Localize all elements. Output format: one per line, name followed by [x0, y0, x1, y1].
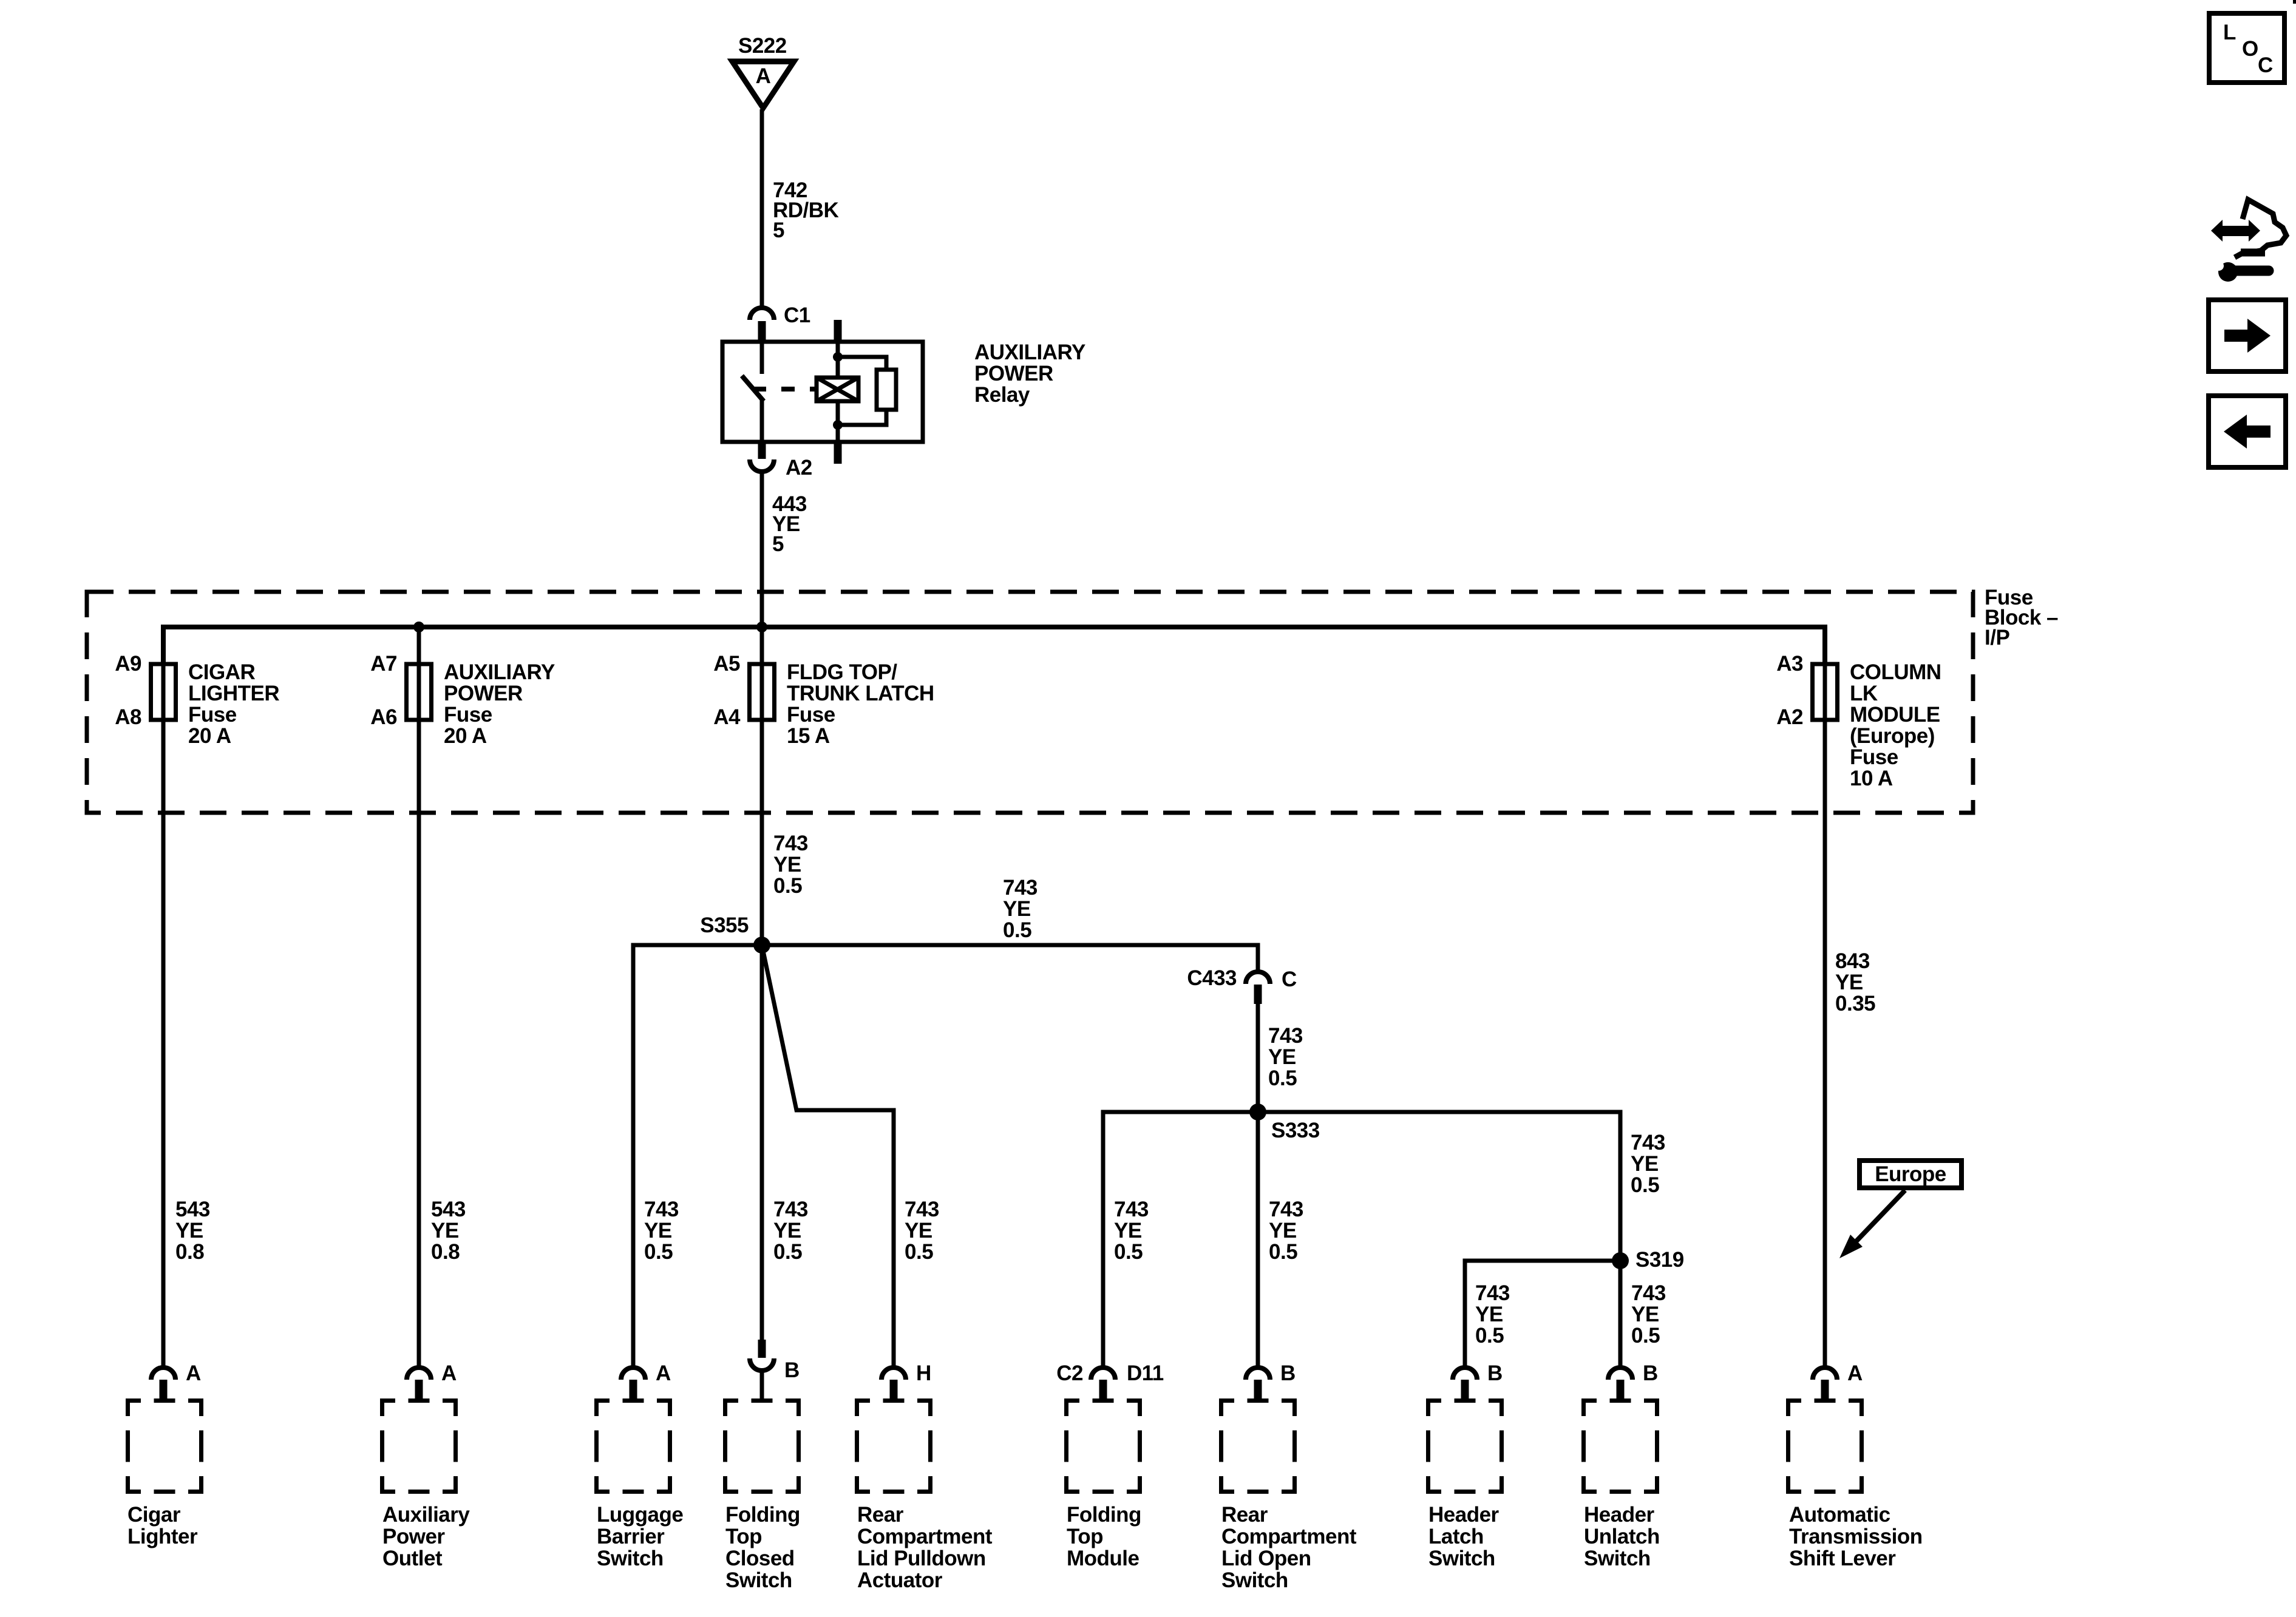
- wire label 743 YE 0.5: [1631, 1281, 1666, 1347]
- svg-text:0.5: 0.5: [644, 1240, 673, 1264]
- wire S333 to folding top module: [1103, 1112, 1258, 1367]
- svg-text:Switch: Switch: [1221, 1568, 1288, 1592]
- svg-text:Transmission: Transmission: [1789, 1525, 1923, 1548]
- connector C433 pin C: [1187, 966, 1297, 1004]
- connector A2: [750, 442, 812, 480]
- svg-text:Rear: Rear: [1221, 1503, 1268, 1527]
- wire label 743 YE 0.5: [1631, 1131, 1665, 1197]
- svg-text:O: O: [2242, 37, 2258, 61]
- svg-text:743: 743: [1631, 1131, 1665, 1154]
- svg-text:B: B: [1487, 1361, 1503, 1385]
- svg-text:POWER: POWER: [974, 362, 1053, 385]
- wire C433 to S333: [1256, 1004, 1260, 1112]
- Europe callout box: [1860, 1161, 1961, 1188]
- fuse block label Fuse Block - I/P: [1985, 586, 2058, 649]
- fuse AUXILIARY POWER Fuse 20 A: [407, 627, 432, 722]
- svg-text:Shift Lever: Shift Lever: [1789, 1547, 1896, 1570]
- wire label 743 YE 0.5 above S355: [773, 832, 808, 898]
- svg-text:0.8: 0.8: [175, 1240, 204, 1264]
- wire 843 fuse A2 to automatic transmission shift lever: [1823, 720, 1827, 1367]
- component label Automatic Transmission Shift Lever: [1789, 1503, 1923, 1570]
- svg-text:Rear: Rear: [857, 1503, 904, 1527]
- svg-text:(Europe): (Europe): [1850, 724, 1935, 748]
- svg-text:843: 843: [1835, 949, 1870, 973]
- connector A auxiliary power outlet: [407, 1361, 457, 1398]
- svg-text:Header: Header: [1584, 1503, 1655, 1527]
- svg-text:Top: Top: [725, 1525, 762, 1548]
- svg-text:Header: Header: [1428, 1503, 1500, 1527]
- svg-text:743: 743: [1631, 1281, 1666, 1305]
- fuse label CIGAR LIGHTER Fuse 20 A: [188, 660, 279, 748]
- svg-text:Folding: Folding: [725, 1503, 800, 1527]
- svg-text:YE: YE: [1475, 1303, 1503, 1326]
- svg-text:AUXILIARY: AUXILIARY: [444, 660, 555, 684]
- svg-text:743: 743: [905, 1198, 939, 1221]
- fuse label AUXILIARY POWER Fuse 20 A: [444, 660, 555, 748]
- wire 443 from A2 to fuse block: [760, 473, 764, 664]
- wire label 743 YE 0.5: [1268, 1024, 1303, 1090]
- svg-text:D11: D11: [1127, 1361, 1164, 1385]
- page corner mark: [2293, 0, 2296, 4]
- svg-text:Closed: Closed: [725, 1547, 795, 1570]
- wire S355 to luggage barrier switch: [633, 945, 762, 1367]
- component label Auxiliary Power Outlet: [382, 1503, 470, 1570]
- fuse COLUMN LK MODULE (Europe) Fuse 10 A: [1813, 627, 1838, 722]
- svg-text:Top: Top: [1067, 1525, 1103, 1548]
- wire 743 from fuse A4 to S355: [760, 720, 764, 945]
- component box Header Latch Switch: [1426, 1398, 1504, 1494]
- nav icon arrow right: [2209, 300, 2286, 371]
- connector A cigar lighter: [151, 1361, 201, 1398]
- svg-text:Module: Module: [1067, 1547, 1140, 1570]
- svg-text:YE: YE: [1631, 1152, 1659, 1176]
- svg-text:Cigar: Cigar: [127, 1503, 181, 1527]
- wire label 743 YE 0.5: [1003, 876, 1038, 942]
- splice S319: [1612, 1248, 1684, 1272]
- svg-text:A6: A6: [370, 705, 397, 729]
- junction dot coil bottom: [833, 420, 843, 430]
- bus wire inside fuse block: [163, 627, 1825, 664]
- wire label 743 YE 0.5: [1114, 1198, 1149, 1264]
- component box Header Unlatch Switch: [1581, 1398, 1659, 1494]
- svg-text:743: 743: [773, 832, 808, 855]
- svg-text:743: 743: [1268, 1024, 1303, 1048]
- svg-text:Switch: Switch: [1428, 1547, 1495, 1570]
- svg-text:MODULE: MODULE: [1850, 703, 1940, 727]
- svg-text:B: B: [1643, 1361, 1658, 1385]
- svg-text:YE: YE: [644, 1219, 672, 1242]
- fuse label FLDG TOP/ TRUNK LATCH Fuse 15 A: [787, 660, 934, 748]
- svg-text:I/P: I/P: [1985, 626, 2009, 649]
- svg-text:Luggage: Luggage: [597, 1503, 683, 1527]
- wire S355 diagonal to rear compartment lid pulldown actuator: [762, 945, 894, 1367]
- component label Rear Compartment Lid Pulldown Actuator: [857, 1503, 993, 1592]
- wire label 743 YE 0.5: [644, 1198, 679, 1264]
- wire S319 to header latch switch: [1465, 1261, 1620, 1367]
- component box Folding Top Module: [1064, 1398, 1142, 1494]
- wire label 443 YE 5: [772, 492, 807, 556]
- svg-text:15 A: 15 A: [787, 724, 830, 748]
- svg-text:Switch: Switch: [725, 1568, 792, 1592]
- relay switch contact: [742, 342, 764, 442]
- svg-text:743: 743: [1003, 876, 1038, 900]
- svg-text:LK: LK: [1850, 682, 1878, 705]
- svg-text:743: 743: [644, 1198, 679, 1221]
- svg-text:0.5: 0.5: [1631, 1173, 1659, 1197]
- svg-text:YE: YE: [1114, 1219, 1142, 1242]
- svg-text:YE: YE: [431, 1219, 459, 1242]
- wire label 743 YE 0.5: [905, 1198, 939, 1264]
- wire S355 to folding top closed switch: [760, 945, 764, 1340]
- relay label AUXILIARY POWER Relay: [974, 341, 1085, 407]
- svg-text:A: A: [1847, 1361, 1863, 1385]
- svg-text:A: A: [186, 1361, 201, 1385]
- connector A luggage barrier switch: [621, 1361, 671, 1398]
- svg-text:A: A: [441, 1361, 457, 1385]
- svg-text:A2: A2: [1776, 705, 1803, 729]
- relay U1 AUXILIARY POWER Relay box: [722, 342, 923, 442]
- svg-text:Outlet: Outlet: [382, 1547, 443, 1570]
- svg-text:743: 743: [1475, 1281, 1510, 1305]
- svg-text:Latch: Latch: [1428, 1525, 1484, 1548]
- wire S333 to rear compartment lid open switch: [1256, 1112, 1260, 1367]
- connector C1: [750, 303, 810, 342]
- svg-text:C2: C2: [1056, 1361, 1083, 1385]
- component label Rear Compartment Lid Open Switch: [1221, 1503, 1357, 1592]
- wire 742 from S222 to C1: [760, 109, 764, 307]
- svg-text:Lighter: Lighter: [127, 1525, 198, 1548]
- svg-text:0.5: 0.5: [1003, 918, 1031, 942]
- svg-text:Switch: Switch: [597, 1547, 664, 1570]
- svg-text:Compartment: Compartment: [857, 1525, 993, 1548]
- svg-text:0.5: 0.5: [1268, 1066, 1297, 1090]
- svg-text:0.5: 0.5: [773, 1240, 802, 1264]
- svg-text:0.5: 0.5: [1269, 1240, 1297, 1264]
- svg-text:COLUMN: COLUMN: [1850, 660, 1941, 684]
- svg-text:20 A: 20 A: [188, 724, 231, 748]
- svg-text:0.5: 0.5: [1631, 1324, 1660, 1347]
- splice S333: [1249, 1103, 1320, 1142]
- svg-text:Automatic: Automatic: [1789, 1503, 1890, 1527]
- component label Cigar Lighter: [127, 1503, 198, 1548]
- svg-text:B: B: [784, 1358, 800, 1382]
- wire 543 to auxiliary power outlet: [417, 627, 421, 1367]
- svg-text:0.35: 0.35: [1835, 992, 1875, 1015]
- svg-text:Lid Pulldown: Lid Pulldown: [857, 1547, 986, 1570]
- wire label 743 YE 0.5: [773, 1198, 808, 1264]
- svg-text:Fuse: Fuse: [1850, 745, 1898, 769]
- svg-text:10 A: 10 A: [1850, 767, 1893, 790]
- connector A automatic transmission shift lever: [1813, 1361, 1863, 1398]
- svg-text:Fuse: Fuse: [787, 703, 835, 727]
- relay pin tick bottom (coil 85): [834, 442, 842, 464]
- svg-text:H: H: [916, 1361, 931, 1385]
- svg-text:Compartment: Compartment: [1221, 1525, 1357, 1548]
- junction dot coil top: [833, 352, 843, 362]
- svg-text:A9: A9: [115, 652, 141, 676]
- splice S355: [700, 914, 770, 954]
- svg-text:YE: YE: [773, 1219, 801, 1242]
- svg-text:5: 5: [772, 532, 784, 556]
- relay coil suppression resistor: [838, 357, 896, 425]
- svg-text:Unlatch: Unlatch: [1584, 1525, 1660, 1548]
- svg-text:L: L: [2223, 21, 2236, 44]
- svg-text:Switch: Switch: [1584, 1547, 1651, 1570]
- svg-text:543: 543: [431, 1198, 466, 1221]
- relay coil K1 (box with X): [817, 342, 858, 442]
- component box Auxiliary Power Outlet: [380, 1398, 458, 1494]
- relay actuation dashed link: [753, 387, 818, 392]
- svg-text:YE: YE: [905, 1219, 932, 1242]
- svg-text:A: A: [756, 64, 771, 88]
- svg-text:S333: S333: [1271, 1119, 1320, 1142]
- svg-text:A8: A8: [115, 705, 141, 729]
- connector B folding top closed switch: [750, 1340, 800, 1398]
- component box Rear Compartment Lid Open Switch: [1219, 1398, 1297, 1494]
- svg-text:YE: YE: [1268, 1045, 1296, 1069]
- wire S355 to C433: [762, 945, 1258, 971]
- svg-text:CIGAR: CIGAR: [188, 660, 256, 684]
- svg-text:Fuse: Fuse: [188, 703, 237, 727]
- wire label 543 YE 0.8: [175, 1198, 210, 1264]
- svg-text:0.5: 0.5: [905, 1240, 933, 1264]
- svg-text:Barrier: Barrier: [597, 1525, 665, 1548]
- svg-text:0.8: 0.8: [431, 1240, 460, 1264]
- svg-text:LIGHTER: LIGHTER: [188, 682, 279, 705]
- Europe callout arrow: [1839, 1190, 1905, 1258]
- fuse CIGAR LIGHTER Fuse 20 A: [151, 627, 176, 722]
- fuse FLDG TOP/ TRUNK LATCH Fuse 15 A: [750, 627, 775, 722]
- svg-text:FLDG TOP/: FLDG TOP/: [787, 660, 897, 684]
- svg-text:0.5: 0.5: [773, 874, 802, 898]
- connector C2 D11 folding top module: [1056, 1361, 1164, 1398]
- svg-text:Folding: Folding: [1067, 1503, 1141, 1527]
- svg-text:AUXILIARY: AUXILIARY: [974, 341, 1085, 364]
- component box Cigar Lighter: [126, 1398, 203, 1494]
- svg-text:A4: A4: [713, 705, 741, 729]
- junction dot bus A7: [413, 622, 424, 632]
- svg-text:0.5: 0.5: [1475, 1324, 1504, 1347]
- fuse block I/P dashed boundary: [87, 592, 1973, 813]
- component box Automatic Transmission Shift Lever: [1786, 1398, 1864, 1494]
- svg-text:Fuse: Fuse: [444, 703, 492, 727]
- svg-text:C: C: [2258, 53, 2273, 77]
- svg-text:TRUNK LATCH: TRUNK LATCH: [787, 682, 934, 705]
- svg-text:B: B: [1280, 1361, 1296, 1385]
- component box Folding Top Closed Switch: [723, 1398, 801, 1494]
- nav icon arrow left: [2209, 396, 2286, 467]
- svg-text:543: 543: [175, 1198, 210, 1221]
- component label Header Latch Switch: [1428, 1503, 1500, 1570]
- svg-text:Relay: Relay: [974, 383, 1030, 407]
- wire label 743 YE 0.5: [1475, 1281, 1510, 1347]
- fuse label COLUMN LK MODULE (Europe) Fuse 10 A: [1850, 660, 1941, 790]
- svg-text:YE: YE: [1269, 1219, 1297, 1242]
- svg-text:YE: YE: [1631, 1303, 1659, 1326]
- relay pin tick top (coil 86): [834, 320, 842, 342]
- splice S222 power feed triangle: [731, 34, 795, 108]
- svg-text:A3: A3: [1776, 652, 1803, 676]
- component box Rear Compartment Lid Pulldown Actuator: [855, 1398, 932, 1494]
- wire label 742 RD/BK 5: [773, 178, 839, 242]
- svg-text:C433: C433: [1187, 966, 1237, 990]
- svg-text:Power: Power: [382, 1525, 445, 1548]
- wiring repair icon (double arrow, harness outline, wrench): [2211, 200, 2286, 282]
- component label Folding Top Module: [1067, 1503, 1141, 1570]
- svg-text:YE: YE: [1003, 897, 1031, 921]
- wire label 543 YE 0.8: [431, 1198, 466, 1264]
- LOC reference box icon: [2209, 13, 2284, 83]
- svg-text:S355: S355: [700, 914, 749, 937]
- svg-text:YE: YE: [175, 1219, 203, 1242]
- svg-text:YE: YE: [773, 853, 801, 876]
- svg-text:Auxiliary: Auxiliary: [382, 1503, 470, 1527]
- svg-text:Europe: Europe: [1875, 1162, 1946, 1186]
- svg-text:A: A: [656, 1361, 671, 1385]
- connector H rear compartment lid pulldown actuator: [881, 1361, 931, 1398]
- connector B header unlatch switch: [1608, 1361, 1658, 1398]
- svg-text:C1: C1: [784, 303, 810, 327]
- svg-text:743: 743: [1269, 1198, 1303, 1221]
- connector B rear compartment lid open switch: [1246, 1361, 1296, 1398]
- svg-text:5: 5: [773, 219, 784, 242]
- junction dot bus A5: [756, 622, 767, 632]
- component label Header Unlatch Switch: [1584, 1503, 1660, 1570]
- svg-text:Lid Open: Lid Open: [1221, 1547, 1311, 1570]
- svg-text:0.5: 0.5: [1114, 1240, 1143, 1264]
- svg-text:A7: A7: [370, 652, 397, 676]
- svg-text:S222: S222: [738, 34, 787, 58]
- component label Folding Top Closed Switch: [725, 1503, 800, 1592]
- wire S333 to S319: [1258, 1112, 1620, 1261]
- component box Luggage Barrier Switch: [594, 1398, 672, 1494]
- wire 543 to cigar lighter: [161, 720, 166, 1367]
- svg-text:POWER: POWER: [444, 682, 523, 705]
- wire S319 to header unlatch switch: [1618, 1261, 1623, 1367]
- svg-text:YE: YE: [1835, 971, 1863, 994]
- connector B header latch switch: [1453, 1361, 1503, 1398]
- svg-text:C: C: [1282, 968, 1297, 991]
- svg-text:S319: S319: [1635, 1248, 1684, 1272]
- svg-text:Actuator: Actuator: [857, 1568, 943, 1592]
- svg-text:743: 743: [1114, 1198, 1149, 1221]
- wire label 843 YE 0.35: [1835, 949, 1875, 1015]
- svg-text:20 A: 20 A: [444, 724, 487, 748]
- svg-text:A5: A5: [713, 652, 740, 676]
- svg-text:A2: A2: [786, 456, 812, 480]
- svg-text:743: 743: [773, 1198, 808, 1221]
- wire label 743 YE 0.5: [1269, 1198, 1303, 1264]
- component label Luggage Barrier Switch: [597, 1503, 683, 1570]
